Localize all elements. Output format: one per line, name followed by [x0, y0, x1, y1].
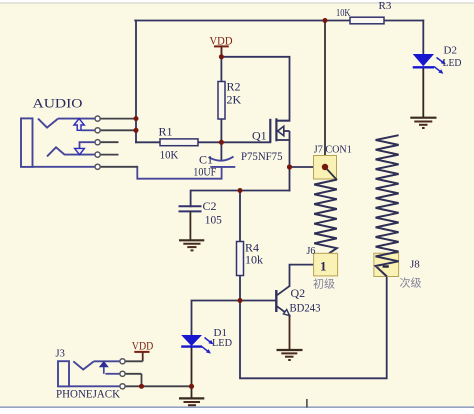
wire R2 bottom to gate node: [220, 119, 222, 143]
svg-text:P75NF75: P75NF75: [241, 149, 283, 163]
resistor R3: [336, 0, 392, 24]
wire top horizontal to R3: [135, 20, 350, 22]
svg-text:D2: D2: [444, 45, 457, 57]
svg-text:PHONEJACK: PHONEJACK: [56, 389, 121, 401]
svg-text:105: 105: [205, 212, 222, 226]
svg-text:R3: R3: [379, 0, 392, 12]
svg-text:10K: 10K: [336, 8, 351, 19]
wire R1 right lead to node: [198, 141, 222, 143]
capacitor C2: [179, 199, 222, 240]
svg-text:C2: C2: [203, 199, 217, 213]
wire Q1 source trunk down: [289, 140, 291, 191]
connector J8 box: [374, 253, 399, 276]
border tick: [306, 399, 308, 408]
wire R4 bottom lead: [239, 275, 241, 300]
svg-text:初级: 初级: [313, 277, 335, 291]
connector J8 labels: [383, 259, 422, 290]
svg-text:1: 1: [320, 259, 327, 274]
connector AUDIO jack: [21, 96, 95, 167]
svg-text:Q1: Q1: [252, 129, 267, 143]
resistor R1: [159, 125, 199, 162]
inductor secondary coil: [376, 135, 399, 276]
svg-text:10K: 10K: [160, 148, 179, 162]
phonejack pin2 link: [105, 373, 120, 375]
wire node to C1 top: [220, 142, 222, 159]
svg-text:AUDIO: AUDIO: [33, 96, 83, 111]
ground (D2): [410, 118, 436, 128]
LED D1: [181, 327, 232, 354]
resistor R4: [237, 241, 264, 276]
power VDD (phonejack): [132, 341, 154, 362]
wire C1 bottom jog to audio pin5: [137, 167, 221, 179]
svg-text:R2: R2: [227, 80, 241, 94]
wire bottom rail to C2: [191, 191, 290, 207]
ground (C2): [179, 240, 204, 250]
svg-text:J7 CON1: J7 CON1: [314, 144, 352, 156]
svg-text:次级: 次级: [400, 276, 422, 290]
connector J3 phonejack: [56, 349, 121, 401]
phonejack pin leads / wires: [125, 361, 192, 386]
svg-text:VDD: VDD: [132, 341, 154, 353]
svg-text:J8: J8: [410, 259, 420, 271]
audio pin leads: [100, 119, 137, 167]
wire secondary return loop: [240, 277, 387, 379]
wire R4 top lead: [239, 191, 241, 242]
op... MOSFET Q1: [241, 118, 290, 163]
wire source node to J7 pin: [290, 166, 326, 168]
wire Q2 emitter to ground: [289, 316, 291, 351]
svg-text:10k: 10k: [245, 253, 263, 267]
capacitor C1: [193, 153, 235, 179]
resistor R2: [218, 80, 242, 120]
wire pin2 drop: [141, 374, 143, 387]
svg-text:R1: R1: [159, 125, 173, 139]
wire gate node to Q1 gate: [221, 141, 270, 143]
transistor Q2: [276, 286, 320, 316]
wire VDD to R2 top: [220, 46, 222, 81]
wire Q2 collector to J6: [290, 265, 314, 286]
audio pin2 link: [81, 129, 95, 131]
wire D2 anode drop: [422, 21, 424, 55]
wire D2 cathode to ground: [422, 68, 424, 118]
svg-text:2K: 2K: [227, 93, 242, 107]
wire top-left vertical trunk: [135, 21, 137, 143]
sheet border bottom: [0, 406, 474, 408]
wire R1 left lead: [136, 141, 161, 143]
ground (D1): [179, 386, 204, 405]
power VDD (top): [210, 33, 233, 57]
svg-text:BD243: BD243: [290, 301, 321, 315]
inductor primary coil: [314, 180, 337, 254]
connector J6: [307, 246, 338, 291]
wire VDD to Q1 drain: [221, 57, 289, 121]
svg-text:Q2: Q2: [291, 286, 306, 300]
wire J7 drop from top: [324, 21, 326, 168]
wire R3 right to D2: [384, 20, 423, 22]
svg-text:10UF: 10UF: [193, 164, 216, 178]
svg-text:J3: J3: [56, 349, 65, 360]
wire D1 cathode down: [191, 347, 193, 387]
svg-text:LED: LED: [443, 57, 462, 69]
phonejack pin circles: [120, 359, 125, 389]
phonejack switch arrow: [100, 362, 108, 367]
audio switch up-arrow: [74, 119, 84, 131]
audio pin circles: [95, 116, 100, 169]
audio switch down-arrow with elbow: [80, 142, 96, 148]
ground (Q2 emitter): [277, 350, 303, 360]
connector J7 CON1: [314, 144, 352, 181]
svg-text:J6: J6: [307, 246, 316, 257]
wire base node to D1: [192, 301, 241, 336]
LED D2: [413, 45, 462, 74]
svg-text:LED: LED: [212, 337, 232, 349]
wire base node to Q2 base: [240, 300, 276, 302]
svg-text:VDD: VDD: [210, 33, 233, 47]
